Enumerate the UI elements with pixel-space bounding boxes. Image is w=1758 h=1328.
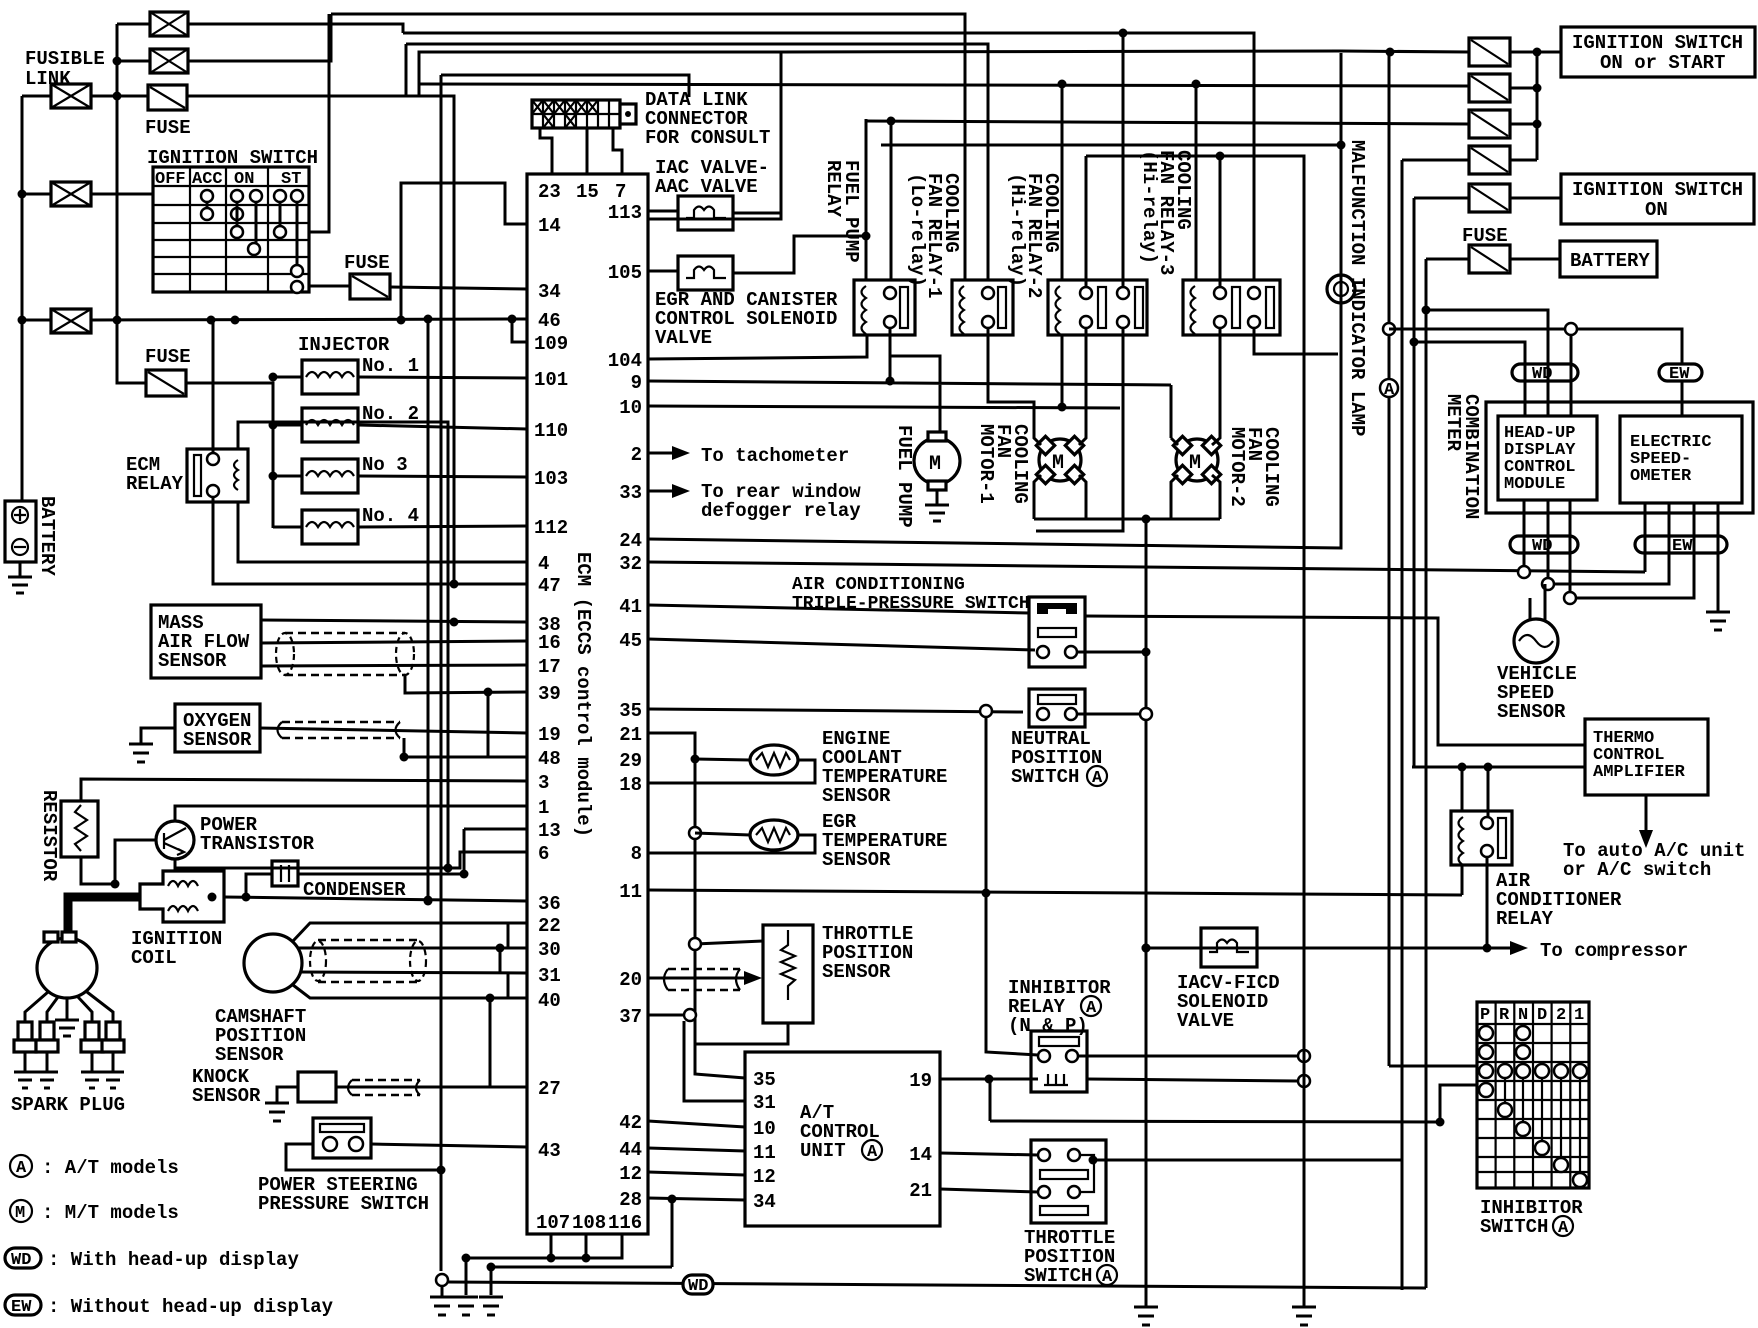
battery symbol — [5, 496, 58, 576]
svg-text:M: M — [929, 453, 941, 476]
svg-text:EW: EW — [1669, 365, 1690, 384]
wire: FL5 bus y320 to ECM pin46 — [91, 319, 527, 320]
legend WD — [5, 1248, 41, 1270]
fuel pump motor — [914, 432, 960, 490]
svg-text:1: 1 — [538, 797, 549, 819]
ignition coil — [140, 871, 224, 922]
svg-text:RELAY: RELAY — [126, 473, 184, 495]
svg-text:To compressor: To compressor — [1540, 940, 1688, 962]
wire ECM33 defogger arrow — [648, 490, 672, 493]
A/C switch wires — [1077, 651, 1146, 654]
wire to combination meter WD — [1414, 342, 1525, 362]
wire ECM11 to A/C relay coil — [648, 890, 1462, 895]
oxygen sensor wire — [260, 728, 527, 733]
condenser — [272, 861, 298, 886]
power transistor wires — [115, 806, 527, 884]
svg-text:105: 105 — [608, 262, 642, 284]
svg-text:OMETER: OMETER — [1630, 467, 1692, 486]
svg-text:A: A — [1558, 1219, 1569, 1238]
svg-text:SPARK PLUG: SPARK PLUG — [11, 1094, 125, 1116]
legend EW — [5, 1295, 41, 1317]
x1440 vertical from AC switch top — [1440, 1085, 1477, 1122]
svg-text:M: M — [1052, 452, 1064, 475]
svg-text:16: 16 — [538, 632, 561, 654]
svg-text:109: 109 — [534, 333, 568, 355]
injector wires to ECM — [273, 377, 527, 527]
fuse R5 — [1469, 184, 1510, 212]
inhibitor relay wires — [940, 1056, 1298, 1121]
fusible link FL2 (second crossed box) — [150, 49, 188, 73]
wire: FL1 out to bus riser x403 — [188, 24, 403, 33]
svg-text:No 3: No 3 — [362, 454, 408, 476]
svg-text:2: 2 — [631, 444, 642, 466]
svg-text:INJECTOR: INJECTOR — [298, 334, 390, 356]
svg-text:PRESSURE SWITCH: PRESSURE SWITCH — [258, 1193, 429, 1215]
fusible link FL4 (crossed box row2) — [51, 182, 91, 206]
IAC valve symbol — [678, 196, 733, 230]
neutral position switch — [1029, 689, 1085, 727]
svg-text:48: 48 — [538, 748, 561, 770]
svg-text:37: 37 — [619, 1006, 642, 1028]
bus H2 y33 — [403, 33, 1254, 281]
svg-text:BATTERY: BATTERY — [36, 496, 58, 576]
svg-text:FUSIBLE: FUSIBLE — [25, 48, 105, 70]
camshaft sensor wires — [293, 923, 527, 998]
svg-text:COIL: COIL — [131, 947, 177, 969]
svg-text:or A/C switch: or A/C switch — [1563, 859, 1711, 881]
thermo control amplifier box — [1585, 719, 1708, 795]
svg-text:108: 108 — [572, 1212, 606, 1234]
injector No.1 — [302, 360, 358, 394]
cooling fan motor-2 — [1173, 436, 1220, 483]
wire ECM21 branch vertical x695 — [648, 733, 695, 938]
wire ECM45 — [648, 639, 1035, 650]
PS switch wires — [286, 1144, 527, 1170]
fusible link FL5 (crossed box row3) — [51, 309, 91, 333]
MAF shield ground drop — [405, 675, 527, 693]
svg-text:IGNITION SWITCH: IGNITION SWITCH — [1572, 179, 1743, 201]
svg-text:SENSOR: SENSOR — [822, 849, 891, 871]
data link connector for consult (symbol) — [532, 100, 636, 128]
svg-text:RELAY: RELAY — [822, 160, 844, 218]
wire y329 to EW / speedometer — [1389, 329, 1682, 417]
svg-text:A: A — [1092, 769, 1103, 788]
svg-text:TRANSISTOR: TRANSISTOR — [200, 833, 315, 855]
svg-text:A: A — [867, 1143, 878, 1162]
spark plug 3 — [81, 1022, 103, 1088]
injector No.2 — [302, 408, 358, 442]
head-up display control module box — [1498, 416, 1597, 500]
svg-text:BATTERY: BATTERY — [1570, 250, 1650, 272]
svg-text:4: 4 — [538, 553, 549, 575]
svg-text:SENSOR: SENSOR — [158, 650, 227, 672]
svg-text:VALVE: VALVE — [655, 327, 712, 349]
svg-text:WD: WD — [11, 1251, 31, 1270]
TPS bottom loop to x694 — [695, 950, 788, 1078]
coil to distributor thick wire — [68, 897, 140, 938]
svg-text:ST: ST — [281, 170, 301, 189]
svg-text:(Hi-relay): (Hi-relay) — [1006, 173, 1028, 287]
cooling fan relay-1 — [952, 280, 1013, 335]
fuse F1 (diagonal box) — [148, 85, 187, 110]
svg-text:N: N — [1518, 1006, 1528, 1025]
svg-text:18: 18 — [619, 774, 642, 796]
svg-text:SWITCH: SWITCH — [1011, 766, 1079, 788]
right fuse column: fuse R1 — [1469, 38, 1510, 66]
cooling fan motor-1 — [1036, 436, 1083, 483]
svg-text:29: 29 — [619, 750, 642, 772]
TPS switch wires — [940, 1153, 1402, 1192]
throttle position sensor — [763, 925, 813, 1023]
wire: battery feed vertical x22 — [22, 96, 51, 501]
fuel pump relay — [854, 280, 915, 335]
battery ground — [8, 562, 32, 593]
svg-text:SENSOR: SENSOR — [822, 785, 891, 807]
MAF wires — [261, 620, 527, 666]
svg-text:101: 101 — [534, 369, 568, 391]
svg-text:112: 112 — [534, 517, 568, 539]
thermo wires — [1084, 616, 1585, 767]
ground center-bottom 1 — [430, 1283, 454, 1315]
svg-text:ACC: ACC — [192, 170, 223, 189]
bus H8 y121 — [866, 121, 1469, 124]
wire ECM104 to fuel pump relay coil — [648, 335, 867, 359]
svg-text:28: 28 — [619, 1189, 642, 1211]
svg-text:8: 8 — [631, 843, 642, 865]
svg-text:MOTOR-1: MOTOR-1 — [975, 424, 997, 504]
cooling fan motor-2 wires — [1036, 328, 1338, 531]
bus H9 y145 — [881, 144, 1341, 147]
long verticals center x428 x441 x454 — [428, 75, 454, 1271]
IACV-FICD solenoid valve — [1201, 928, 1257, 967]
svg-text:FUEL PUMP: FUEL PUMP — [893, 425, 915, 528]
ignition switch table — [153, 167, 309, 293]
cooling fan relay-3 — [1183, 280, 1280, 335]
wire ECM41 — [648, 605, 1029, 613]
mass air flow sensor box — [151, 605, 261, 678]
bus H6 y84 — [419, 84, 1469, 86]
svg-text:SENSOR: SENSOR — [215, 1044, 284, 1066]
EW oval top — [1659, 364, 1702, 384]
data link to ECM wires — [540, 128, 622, 174]
svg-text:14: 14 — [909, 1144, 932, 1166]
distributor — [37, 938, 97, 998]
fuse R3 — [1469, 110, 1510, 138]
svg-text:11: 11 — [753, 1142, 776, 1164]
svg-text:OFF: OFF — [155, 170, 186, 189]
ECM left pin labels — [534, 215, 568, 1162]
EGR temperature sensor — [750, 820, 798, 850]
spark plug 1 — [14, 1022, 36, 1088]
svg-text:110: 110 — [534, 420, 568, 442]
EGR and canister control solenoid valve symbol — [678, 256, 733, 290]
motor ground bus to x1146 — [1034, 519, 1220, 1293]
svg-text:103: 103 — [534, 468, 568, 490]
air conditioning triple-pressure switch symbol — [1029, 597, 1085, 667]
bus H1 y14 — [331, 14, 965, 280]
svg-text:7: 7 — [615, 181, 626, 203]
wire: table ST out to riser x329 — [309, 14, 329, 232]
svg-text:36: 36 — [538, 893, 561, 915]
combination meter outer box — [1486, 402, 1753, 513]
IACV wires — [1146, 947, 1451, 950]
camshaft position sensor — [244, 934, 302, 992]
svg-text:2: 2 — [1556, 1006, 1566, 1025]
svg-text:SWITCH: SWITCH — [1024, 1265, 1092, 1287]
svg-text:M: M — [15, 1204, 25, 1223]
svg-text:EW: EW — [1672, 537, 1693, 556]
inhibitor feed wires — [1389, 1065, 1477, 1068]
air conditioner relay — [1451, 811, 1512, 865]
svg-text:ON or START: ON or START — [1600, 52, 1725, 74]
svg-text:ECM (ECCS control module): ECM (ECCS control module) — [572, 552, 594, 837]
malfunction indicator lamp — [1327, 275, 1355, 303]
battery box — [1560, 241, 1657, 277]
svg-text:33: 33 — [619, 482, 642, 504]
data link box outline — [419, 52, 781, 219]
electric speedometer box — [1620, 416, 1742, 503]
svg-text:ON: ON — [1645, 199, 1668, 221]
open circle above ground1 — [436, 1274, 448, 1286]
svg-text:19: 19 — [538, 724, 561, 746]
svg-text:M: M — [1189, 452, 1201, 475]
svg-text:RESISTOR: RESISTOR — [38, 790, 60, 882]
svg-text:D: D — [1537, 1006, 1547, 1025]
svg-text:19: 19 — [909, 1070, 932, 1092]
O2 shield drop to pin48 line — [404, 738, 527, 757]
legend M — [10, 1200, 32, 1223]
junction dots on x22 — [18, 190, 27, 199]
cooling fan motor-1 wires — [988, 328, 1086, 519]
wire ECM35 — [648, 709, 1023, 712]
coolant sensor wires — [648, 759, 815, 783]
svg-text:15: 15 — [576, 181, 599, 203]
wire ECM9 to fuel pump motor — [648, 328, 1171, 438]
throttle position switch — [1031, 1140, 1106, 1223]
svg-text:31: 31 — [753, 1092, 776, 1114]
svg-text:116: 116 — [608, 1212, 642, 1234]
ECM (ECCS control module) box — [527, 174, 648, 1234]
svg-text:34: 34 — [538, 281, 561, 303]
fuse R4 — [1469, 146, 1510, 174]
knock sensor wire + shield — [336, 1086, 527, 1089]
svg-text:R: R — [1499, 1006, 1510, 1025]
bus H10 y156 — [1086, 156, 1304, 166]
wire: FL2 out to bus riser x331 — [188, 14, 331, 61]
O2 dashed shield — [278, 722, 401, 738]
bus H3 y44 — [406, 44, 988, 281]
ECM relay wires — [213, 320, 527, 868]
wire: fuse F2 to ECM pin34 — [390, 287, 527, 289]
svg-text:METER: METER — [1442, 394, 1464, 452]
svg-text:: Without head-up display: : Without head-up display — [48, 1296, 334, 1318]
svg-text:VALVE: VALVE — [1177, 1010, 1234, 1032]
oxygen sensor box — [175, 704, 260, 752]
svg-text:34: 34 — [753, 1191, 776, 1213]
svg-text:3: 3 — [538, 772, 549, 794]
svg-text:35: 35 — [753, 1069, 776, 1091]
wire: pin109 jog — [512, 319, 527, 342]
oxygen sensor ground — [129, 728, 175, 762]
wire ECM35 branch down to y893 — [986, 717, 1038, 1055]
long right verticals — [1389, 49, 1426, 1290]
svg-text:UNIT: UNIT — [800, 1140, 846, 1162]
svg-text:WD: WD — [688, 1277, 708, 1296]
svg-text:30: 30 — [538, 939, 561, 961]
wire ECM10 — [648, 335, 1120, 408]
fuel pump motor ground — [925, 490, 949, 521]
wire x1426 to HUD middle pin — [1426, 310, 1548, 417]
svg-text:13: 13 — [538, 820, 561, 842]
svg-text:24: 24 — [619, 530, 642, 552]
svg-text:9: 9 — [631, 372, 642, 394]
HUD bottom pins through WD to circles — [1524, 500, 1570, 592]
relay feed verticals from buses — [866, 33, 1220, 287]
wire ECM32 long — [648, 562, 1645, 572]
spark plug 4 — [102, 1022, 124, 1088]
svg-text:10: 10 — [753, 1118, 776, 1140]
svg-text:35: 35 — [619, 700, 642, 722]
svg-text:A: A — [1102, 1268, 1113, 1287]
cooling fan relay-2 — [1048, 280, 1147, 335]
WD oval top — [1512, 364, 1578, 384]
svg-text:ON: ON — [234, 170, 254, 189]
svg-text:113: 113 — [608, 202, 642, 224]
ground center-bottom 3 — [479, 1297, 503, 1315]
spark plug 2 — [36, 1022, 58, 1088]
svg-text:12: 12 — [753, 1166, 776, 1188]
injector No.3 — [302, 459, 358, 493]
injector No.4 — [302, 510, 358, 544]
wire ECM2 tachometer arrow — [648, 452, 672, 455]
camshaft dashed shield — [310, 940, 426, 982]
fusible link FL3 (left crossed box) — [51, 84, 91, 108]
svg-text:21: 21 — [619, 724, 642, 746]
wire pin14 jog — [401, 183, 527, 320]
svg-text:14: 14 — [538, 215, 561, 237]
legend A — [10, 1155, 32, 1178]
speedometer ground — [1706, 612, 1730, 630]
svg-text:SENSOR: SENSOR — [822, 961, 891, 983]
pin 22/30 and 31/40 jogs — [507, 923, 510, 998]
svg-text:: M/T models: : M/T models — [42, 1202, 179, 1224]
svg-text:11: 11 — [619, 881, 642, 903]
svg-text:No. 1: No. 1 — [362, 355, 419, 377]
svg-text:MALFUNCTION INDICATOR LAMP: MALFUNCTION INDICATOR LAMP — [1346, 140, 1368, 436]
junction dots x117 — [113, 57, 122, 66]
ignition switch ON or START box — [1561, 27, 1755, 77]
WD oval bottom — [1510, 536, 1578, 556]
svg-text:AMPLIFIER: AMPLIFIER — [1593, 763, 1686, 782]
svg-text:FUSE: FUSE — [344, 252, 390, 274]
svg-text:To tachometer: To tachometer — [701, 445, 849, 467]
svg-text:6: 6 — [538, 843, 549, 865]
wire: FL3 to x117 vertical — [91, 24, 150, 320]
svg-text:defogger relay: defogger relay — [701, 500, 861, 522]
svg-text:10: 10 — [619, 397, 642, 419]
fuse F2 — [350, 274, 390, 299]
svg-text:104: 104 — [608, 350, 642, 372]
NPS wires — [1077, 713, 1140, 716]
vehicle speed sensor — [1514, 619, 1558, 663]
svg-text:45: 45 — [619, 630, 642, 652]
fuse column wires — [1341, 51, 1561, 259]
svg-text:RELAY: RELAY — [1496, 908, 1554, 930]
bottom long line WD — [448, 1282, 1426, 1288]
x1146 vertical continues to ground — [1142, 944, 1151, 953]
A/T control unit box — [745, 1052, 940, 1226]
center plug ground — [55, 1012, 79, 1036]
ignition switch ON box — [1561, 174, 1754, 224]
wire ECM113 to IAC valve — [648, 211, 781, 213]
svg-text:23: 23 — [538, 181, 561, 203]
svg-text:SENSOR: SENSOR — [183, 729, 252, 751]
svg-text:107: 107 — [536, 1212, 570, 1234]
To compressor line — [1146, 947, 1510, 950]
svg-text:: With head-up display: : With head-up display — [48, 1249, 299, 1271]
svg-text:32: 32 — [619, 553, 642, 575]
svg-text:MOTOR-2: MOTOR-2 — [1226, 427, 1248, 507]
fuse R6 battery fuse — [1469, 245, 1510, 273]
wire y1121 TPS switch feed line — [990, 1121, 1440, 1122]
power steering pressure switch — [313, 1118, 371, 1158]
EGR sensor wires — [648, 833, 815, 853]
wire ECM24 long — [648, 53, 1341, 548]
EW oval bottom — [1635, 536, 1727, 556]
svg-text:(Hi-relay): (Hi-relay) — [1138, 150, 1160, 264]
MAF dashed shield — [276, 633, 414, 675]
ignition coil output wire — [224, 897, 527, 901]
inhibitor switch table — [1477, 1002, 1589, 1188]
svg-text:44: 44 — [619, 1139, 642, 1161]
thermo down arrow — [1645, 795, 1648, 830]
svg-text:31: 31 — [538, 965, 561, 987]
A/C relay pin wires — [1462, 767, 1488, 948]
svg-text:20: 20 — [619, 969, 642, 991]
svg-text:39: 39 — [538, 683, 561, 705]
condenser wires — [246, 829, 527, 897]
svg-text:21: 21 — [909, 1180, 932, 1202]
svg-text:P: P — [1480, 1006, 1490, 1025]
svg-text:: A/T models: : A/T models — [42, 1157, 179, 1179]
svg-text:A: A — [1384, 381, 1395, 400]
speedometer bottom pins through EW — [1554, 503, 1718, 612]
svg-text:12: 12 — [619, 1163, 642, 1185]
HUD top pin wires — [1525, 310, 1571, 416]
fusible link FL1 (top crossed box) — [150, 12, 188, 36]
ground center-bottom 2 — [454, 1297, 478, 1315]
grounds bottom right — [1134, 1293, 1158, 1325]
resistor wires — [81, 779, 527, 884]
svg-text:27: 27 — [538, 1078, 561, 1100]
svg-text:No. 4: No. 4 — [362, 505, 419, 527]
svg-text:FUSE: FUSE — [145, 346, 191, 368]
wire: fuse F1 out y96 to x454 — [187, 44, 454, 584]
svg-text:LINK: LINK — [25, 68, 71, 90]
svg-text:FUSE: FUSE — [145, 117, 191, 139]
svg-text:EW: EW — [11, 1298, 32, 1317]
svg-text:1: 1 — [1574, 1006, 1584, 1025]
svg-text:22: 22 — [538, 915, 561, 937]
svg-text:46: 46 — [538, 310, 561, 332]
wire: FL4 to table — [91, 193, 153, 196]
wire ECM37 — [648, 1014, 684, 1017]
svg-text:IGNITION SWITCH: IGNITION SWITCH — [1572, 32, 1743, 54]
svg-text:43: 43 — [538, 1140, 561, 1162]
svg-text:(Lo-relay): (Lo-relay) — [906, 173, 928, 287]
svg-text:41: 41 — [619, 596, 642, 618]
TPS dashed shield pin20 — [664, 969, 740, 990]
